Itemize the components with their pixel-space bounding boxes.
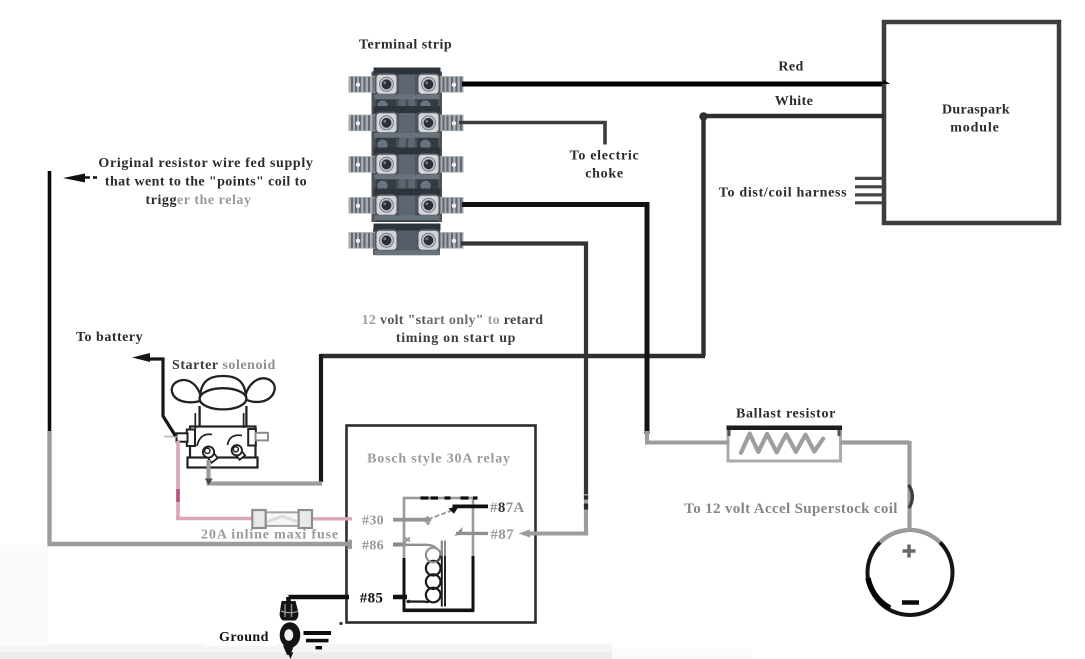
svg-text:To 12 volt Accel Superstock co: To 12 volt Accel Superstock coil	[684, 501, 898, 517]
wire: to battery from solenoid stud	[147, 359, 176, 436]
relay pole node (30 common)	[423, 516, 432, 525]
coil circle (Accel Superstock coil)	[868, 530, 953, 615]
starter solenoid	[164, 376, 275, 468]
solenoid cylinder sides	[200, 406, 247, 427]
terminal strip row 3 tabs	[349, 156, 378, 173]
wire: original resistor feed vertical (black part)	[48, 171, 52, 433]
svg-text:20A inline maxi fuse: 20A inline maxi fuse	[201, 528, 339, 543]
wire: relay 87 gray link	[526, 532, 588, 536]
wire: terminal 2 to electric choke	[459, 123, 605, 145]
terminal strip row 4 tabs	[349, 197, 378, 214]
terminal strip row 1 tabs	[349, 76, 378, 93]
svg-text:Duraspark: Duraspark	[942, 103, 1010, 118]
coil minus terminal	[902, 600, 919, 605]
ground symbol bars	[304, 631, 332, 649]
coil plus terminal	[903, 545, 916, 558]
svg-text:timing on start up: timing on start up	[396, 331, 516, 346]
wire: white from junction to module	[701, 114, 884, 118]
svg-text:Red: Red	[778, 60, 803, 75]
wire: 12 volt start-only down to solenoid stud	[319, 354, 323, 482]
solenoid right stud	[256, 433, 269, 441]
solenoid left wing	[172, 380, 202, 402]
svg-text:Ballast resistor: Ballast resistor	[736, 407, 836, 422]
relay contact 87 arrow	[454, 527, 463, 536]
wire: pink solenoid to fuse	[176, 441, 254, 519]
relay coil tick	[405, 538, 410, 542]
watermark bottom band	[0, 644, 612, 659]
terminal strip row 3 screws	[376, 154, 398, 175]
svg-text:To electric: To electric	[570, 149, 640, 164]
terminal strip row 5 tabs	[349, 232, 378, 249]
ballast resistor R1 box	[727, 426, 843, 462]
watermark artifact near coil wire	[909, 485, 913, 508]
node: white wire junction	[699, 112, 707, 120]
wire: 12 volt start-only horizontal	[321, 354, 705, 358]
solenoid left terminal bracket	[187, 430, 195, 447]
svg-text:White: White	[775, 94, 814, 109]
relay contact 87A	[453, 504, 489, 508]
solenoid bottom stud left	[205, 450, 217, 463]
armature arrowhead	[449, 506, 460, 514]
solenoid right wing	[245, 378, 275, 402]
svg-text:To dist/coil harness: To dist/coil harness	[719, 186, 848, 201]
svg-text:12 volt "start only" to retard: 12 volt "start only" to retard	[362, 313, 544, 328]
svg-text:#85: #85	[360, 591, 383, 607]
svg-text:Original resistor wire fed sup: Original resistor wire fed supply	[98, 156, 313, 171]
relay coil loops	[407, 561, 441, 602]
arrow: small dark arrowhead at gray corner	[205, 479, 213, 486]
terminal strip TB1	[349, 68, 464, 256]
svg-text:#87A: #87A	[490, 500, 525, 516]
wire: red feed from terminal 1 to Duraspark module	[462, 82, 882, 87]
wire: ballast to coil gray	[840, 441, 910, 532]
terminal strip row 1 screws	[376, 74, 398, 95]
white label patches	[206, 510, 393, 646]
svg-text:#87: #87	[491, 527, 515, 543]
relay coil: 86 lead-in curve	[406, 545, 436, 549]
wire: original resistor feed (gray part) to relay 86	[48, 431, 353, 544]
wire: gray elbow into ballast resistor	[645, 431, 729, 443]
wire: solenoid bottom stud gray to 12v wire	[207, 460, 323, 484]
solenoid stud arcs	[197, 434, 212, 446]
relay armature	[428, 510, 453, 519]
solenoid right terminal bracket	[248, 429, 256, 446]
fuse F1 20A inline maxi fuse	[252, 510, 312, 528]
svg-text:Starter solenoid: Starter solenoid	[172, 358, 276, 373]
solenoid bottom stud right	[234, 448, 245, 460]
relay outer box corner dot	[339, 622, 342, 625]
svg-text:trigger the relay: trigger the relay	[145, 193, 251, 208]
wire: terminal 5 down to relay 87	[461, 244, 586, 497]
ground ring terminal	[280, 597, 301, 659]
terminal strip row 2 screws	[376, 112, 398, 133]
terminal strip row 5 screws	[376, 230, 398, 251]
solenoid cylinder top	[200, 388, 247, 409]
solenoid body	[190, 427, 256, 459]
terminal strip row 2 tabs	[349, 115, 378, 132]
relay coil core lines	[442, 541, 445, 607]
svg-text:Ground: Ground	[219, 630, 269, 645]
Duraspark module box U1	[884, 22, 1059, 223]
svg-text:#86: #86	[362, 539, 384, 554]
wire: 85 black to relay	[289, 597, 408, 599]
wire: white vertical down to 12v run	[701, 116, 705, 356]
terminal strip row 4 screws	[376, 195, 398, 216]
wire: resumed 86 gray into relay	[386, 543, 406, 547]
solenoid hanger lines	[195, 413, 243, 429]
solenoid hump	[200, 376, 246, 400]
arrow: original supply arrowhead top left	[63, 174, 85, 183]
wire: pink fuse to relay 30	[311, 517, 356, 520]
relay inner box	[403, 498, 478, 611]
wire: terminal 4 down to ballast resistor	[462, 205, 647, 435]
ballast resistor zigzag	[741, 434, 823, 453]
svg-text:choke: choke	[585, 167, 624, 182]
wire: 30 gray into pole	[387, 518, 427, 522]
svg-text:#30: #30	[362, 514, 384, 529]
svg-text:that went to the "points" coil: that went to the "points" coil to	[105, 175, 307, 190]
svg-text:module: module	[950, 121, 999, 136]
svg-text:Terminal strip: Terminal strip	[359, 38, 452, 53]
arrow: to battery arrowhead	[132, 353, 150, 362]
svg-text:Bosch style 30A relay: Bosch style 30A relay	[367, 452, 511, 467]
harness lines to dist/coil	[855, 178, 884, 202]
arrow into relay 86	[346, 539, 358, 549]
solenoid left stud	[177, 433, 188, 441]
relay coil bottom dot	[407, 600, 411, 604]
relay outer box	[347, 426, 536, 623]
svg-text:To battery: To battery	[76, 330, 143, 345]
